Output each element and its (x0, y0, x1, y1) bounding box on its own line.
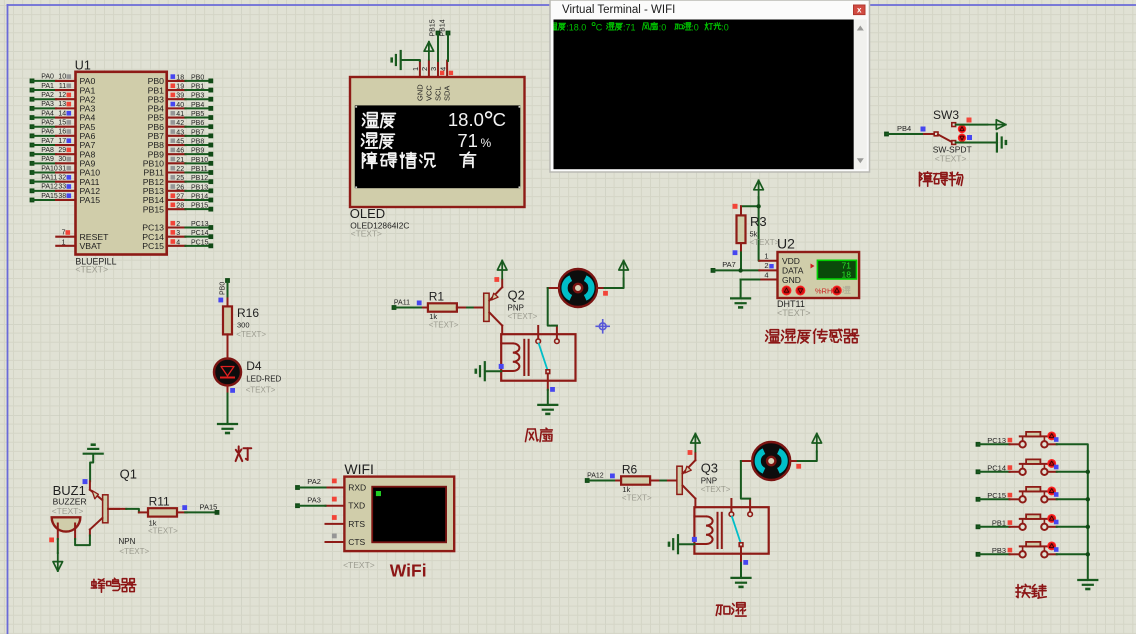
svg-text:<TEXT>: <TEXT> (622, 494, 652, 503)
push button PB1 (976, 514, 1059, 530)
svg-text:<TEXT>: <TEXT> (750, 238, 780, 247)
R11 labels (148, 494, 178, 535)
svg-text:10: 10 (58, 74, 66, 81)
svg-text:VBAT: VBAT (80, 241, 103, 251)
ground left of relay humidifier (669, 535, 697, 553)
wire PB15 to OLED SCL (430, 19, 441, 61)
svg-text:18: 18 (842, 269, 852, 279)
svg-text:PA12: PA12 (587, 473, 604, 480)
svg-text:CTS: CTS (348, 537, 365, 547)
svg-text:7: 7 (62, 230, 66, 237)
svg-text:38: 38 (58, 193, 66, 200)
svg-text:SCL: SCL (434, 86, 443, 101)
power terminal right of motor fan (619, 261, 629, 279)
svg-text:27: 27 (176, 193, 184, 200)
label humidifier (716, 603, 746, 616)
ground above Q1 (83, 445, 103, 484)
motor fan (548, 269, 605, 307)
svg-text:PB4: PB4 (191, 102, 204, 109)
push button PC13 (976, 432, 1059, 448)
svg-text:U2: U2 (777, 236, 795, 252)
svg-text:21: 21 (176, 157, 184, 164)
svg-text:C: C (493, 109, 506, 130)
wire BUZ1 to power down (49, 538, 58, 553)
svg-text::0: :0 (659, 22, 667, 32)
svg-text:PB1: PB1 (992, 518, 1006, 527)
svg-text:19: 19 (176, 84, 184, 91)
svg-text:PB14: PB14 (191, 193, 208, 200)
svg-text:13: 13 (58, 101, 66, 108)
svg-text:PC14: PC14 (191, 230, 209, 237)
power terminal right of motor humidifier (812, 434, 822, 452)
svg-text:<TEXT>: <TEXT> (777, 308, 811, 318)
wire R3 to PA7 node (740, 252, 742, 270)
svg-text:PA9: PA9 (41, 156, 54, 163)
Virtual Terminal - WIFI window (550, 0, 870, 172)
svg-text:PA7: PA7 (41, 138, 54, 145)
svg-text:R11: R11 (149, 494, 170, 508)
power terminal above Q3 (688, 434, 701, 455)
Q3 labels (701, 461, 731, 495)
ground for OLED GND pin (392, 51, 420, 69)
svg-text:VDD: VDD (782, 256, 800, 266)
svg-text:<TEXT>: <TEXT> (236, 330, 266, 339)
svg-text:PA11: PA11 (394, 300, 410, 307)
svg-text:18: 18 (176, 74, 184, 81)
OLED display U-OLED (350, 61, 525, 207)
resistor R16 (223, 298, 232, 343)
wire motor to power fan (603, 279, 624, 296)
label temperature humidity sensor (766, 329, 859, 343)
svg-text:PB3: PB3 (992, 546, 1006, 555)
BUZ1 labels (52, 483, 87, 516)
svg-text:29: 29 (58, 147, 66, 154)
R3 labels (733, 214, 780, 255)
svg-text:42: 42 (176, 120, 184, 127)
svg-text:1: 1 (764, 252, 768, 261)
ground for buttons (1078, 580, 1097, 589)
svg-text:%RH: %RH (815, 286, 833, 295)
wire D4 to ground (228, 388, 236, 424)
svg-text:RTS: RTS (348, 519, 365, 529)
svg-text:GND: GND (416, 84, 425, 101)
resistor R6 (616, 476, 660, 484)
svg-text:<TEXT>: <TEXT> (935, 154, 967, 164)
relay humidifier (694, 499, 768, 563)
svg-text:2: 2 (176, 221, 180, 228)
svg-text:PC13: PC13 (987, 436, 1006, 445)
wire Q1 base to R11 (108, 509, 139, 513)
svg-text:PC14: PC14 (987, 463, 1006, 472)
svg-text::0: :0 (691, 22, 699, 32)
svg-text:PC15: PC15 (142, 241, 164, 251)
origin marker (596, 320, 609, 333)
R16 labels (236, 306, 266, 339)
svg-text:2: 2 (420, 67, 429, 71)
svg-text:<TEXT>: <TEXT> (148, 527, 178, 536)
svg-text:<TEXT>: <TEXT> (52, 506, 84, 516)
motor humidifier (741, 442, 798, 480)
ground under U2 (731, 298, 750, 307)
resistor R11 (139, 508, 187, 516)
svg-text:PB11: PB11 (191, 166, 208, 173)
svg-text:WiFi: WiFi (390, 561, 427, 581)
svg-text:PC15: PC15 (191, 239, 209, 246)
svg-text:RXD: RXD (348, 483, 366, 493)
svg-text:PA2: PA2 (307, 477, 321, 486)
ground right of SW3 (997, 134, 1006, 152)
svg-text:1: 1 (411, 67, 420, 71)
wire PB14 to OLED SDA (440, 19, 451, 61)
U1 value labels (75, 257, 116, 275)
svg-text:PA5: PA5 (41, 120, 54, 127)
svg-text:VCC: VCC (425, 85, 434, 101)
svg-text:11: 11 (59, 83, 66, 90)
push button PB3 (976, 542, 1059, 558)
svg-text:x: x (857, 6, 862, 15)
svg-text:R1: R1 (429, 289, 445, 303)
svg-text:PA10: PA10 (41, 165, 58, 172)
wire motor to relay humidifier (741, 461, 750, 499)
svg-text:PB15: PB15 (430, 19, 437, 36)
svg-text:R6: R6 (622, 462, 638, 476)
resistor R3 (737, 206, 746, 252)
OLED screen text line3 (363, 152, 476, 168)
relay fan (501, 326, 575, 390)
wire U2 GND to ground (741, 280, 760, 298)
microcontroller U1 (75, 58, 167, 254)
svg-text:SDA: SDA (443, 86, 452, 101)
svg-text:4: 4 (438, 67, 447, 71)
svg-text:PA7: PA7 (722, 260, 736, 269)
svg-text:U1: U1 (75, 58, 91, 72)
svg-text:15: 15 (58, 120, 66, 127)
svg-text:<TEXT>: <TEXT> (246, 386, 276, 395)
svg-text:<TEXT>: <TEXT> (119, 547, 149, 556)
svg-text:16: 16 (58, 129, 66, 136)
button bus wire (1057, 444, 1090, 579)
svg-text:PB6: PB6 (191, 120, 204, 127)
svg-text:33: 33 (58, 184, 66, 191)
transistor Q2 PNP (484, 280, 503, 334)
svg-text:45: 45 (176, 139, 184, 146)
svg-text:PB8: PB8 (191, 139, 204, 146)
LED D4 (214, 344, 241, 394)
svg-text:39: 39 (176, 93, 184, 100)
wire R6 to Q3 base (660, 480, 676, 482)
svg-text:14: 14 (58, 110, 66, 117)
wire PA12 (585, 473, 616, 483)
svg-text:3: 3 (429, 67, 438, 71)
svg-text:<TEXT>: <TEXT> (351, 229, 382, 239)
wire PA7 (711, 260, 760, 273)
svg-text:22: 22 (176, 166, 184, 173)
ground left of relay fan (476, 362, 504, 380)
svg-text:Q2: Q2 (508, 288, 525, 303)
power terminal for OLED VCC (424, 42, 434, 60)
wire PA2 (295, 477, 337, 490)
svg-text:NPN: NPN (119, 537, 136, 546)
wire relay common to ground humidifier (741, 560, 748, 577)
label buzzer (91, 578, 136, 592)
svg-text::18.0: :18.0 (566, 22, 586, 32)
svg-text:300: 300 (237, 321, 250, 330)
ground under relay humidifier (732, 578, 751, 587)
svg-text:PB12: PB12 (191, 175, 208, 182)
power terminal below BUZ1 (53, 553, 63, 571)
svg-text:46: 46 (176, 148, 184, 155)
svg-text:PC13: PC13 (191, 221, 209, 228)
svg-text:43: 43 (176, 129, 184, 136)
svg-text:71: 71 (457, 130, 478, 151)
svg-text:PB15: PB15 (191, 203, 208, 210)
Q1 labels (119, 467, 150, 556)
svg-text:WIFI: WIFI (344, 461, 374, 477)
svg-text:PA2: PA2 (41, 92, 54, 99)
wire PB0 to R16 (218, 278, 230, 302)
wire PA15 (182, 502, 219, 515)
svg-text:1: 1 (62, 239, 66, 246)
svg-text:PA6: PA6 (41, 129, 54, 136)
svg-text:Virtual Terminal - WIFI: Virtual Terminal - WIFI (562, 4, 675, 16)
power terminal above Q2 (494, 261, 507, 282)
svg-text:R3: R3 (750, 214, 767, 229)
svg-text:PB5: PB5 (191, 111, 204, 118)
U1 pin wires and pin numbers (30, 74, 214, 249)
buzzer BUZ1 (52, 517, 81, 539)
svg-text::71: :71 (623, 22, 636, 32)
svg-text::0: :0 (721, 22, 729, 32)
svg-text:PB15: PB15 (143, 204, 164, 214)
svg-text:R16: R16 (237, 306, 259, 320)
push button PC15 (976, 487, 1059, 503)
R1 labels (429, 289, 459, 329)
SW3 labels (933, 145, 972, 164)
svg-text:18.0: 18.0 (448, 109, 484, 130)
svg-text:2: 2 (764, 261, 768, 270)
transistor Q3 PNP (677, 453, 696, 507)
svg-text:SW3: SW3 (933, 108, 959, 122)
svg-text:PA15: PA15 (41, 193, 58, 200)
SW3 toggle markers (958, 118, 972, 142)
svg-text:PA0: PA0 (41, 74, 54, 81)
push button PC14 (976, 459, 1059, 475)
svg-text:PB0: PB0 (191, 74, 204, 81)
svg-text:PA11: PA11 (41, 174, 57, 181)
svg-text:PA1: PA1 (41, 83, 54, 90)
resistor R1 (423, 303, 467, 311)
label fan (525, 428, 552, 442)
wire motor to relay fan (548, 288, 557, 326)
wire PA11 (392, 300, 423, 310)
label lamp (236, 446, 252, 461)
svg-text:12: 12 (58, 92, 66, 99)
RTS CTS state squares (332, 515, 337, 538)
svg-text:PA12: PA12 (41, 184, 58, 191)
svg-text:LED-RED: LED-RED (246, 375, 281, 384)
svg-text:GND: GND (782, 275, 801, 285)
module WIFI (326, 461, 455, 551)
svg-text:17: 17 (58, 138, 66, 145)
svg-text:DATA: DATA (782, 265, 804, 275)
wire PA3 (295, 496, 337, 508)
WIFI labels (343, 560, 375, 570)
svg-text:%: % (481, 136, 492, 150)
wire motor to power humidifier (796, 452, 817, 469)
svg-text:<TEXT>: <TEXT> (343, 560, 375, 570)
svg-text:31: 31 (58, 165, 66, 172)
terminal green text (550, 22, 729, 32)
svg-text:40: 40 (176, 102, 184, 109)
wire BUZ1 to Q1 emitter (75, 536, 90, 546)
svg-text:PB9: PB9 (191, 148, 204, 155)
svg-text:<TEXT>: <TEXT> (701, 485, 731, 494)
OLED screen text line1 (362, 109, 505, 130)
ground under relay fan (538, 405, 557, 414)
svg-text:PB1: PB1 (191, 84, 204, 91)
svg-text:Q1: Q1 (120, 467, 137, 482)
svg-text:PC15: PC15 (987, 491, 1006, 500)
wire R1 to Q2 base (467, 307, 483, 309)
OLED screen text line2 (361, 130, 491, 151)
svg-text:TXD: TXD (348, 501, 365, 511)
svg-text:PA8: PA8 (41, 147, 54, 154)
svg-text:32: 32 (58, 174, 66, 181)
svg-text:PB13: PB13 (191, 184, 208, 191)
switch SW3 (884, 108, 959, 144)
svg-text:BUZZER: BUZZER (53, 496, 87, 506)
wire relay common to ground fan (548, 387, 555, 404)
D4 labels (246, 359, 282, 395)
ground under D4 (218, 424, 237, 433)
svg-text:PA3: PA3 (41, 101, 54, 108)
svg-text:PB4: PB4 (897, 124, 911, 133)
svg-text:26: 26 (176, 184, 184, 191)
svg-text:4: 4 (764, 270, 768, 279)
svg-text:PB10: PB10 (191, 157, 208, 164)
svg-text:PA3: PA3 (307, 496, 321, 505)
svg-text:PA4: PA4 (41, 110, 54, 117)
svg-text:D4: D4 (246, 359, 262, 373)
svg-text:PB0: PB0 (219, 282, 226, 295)
svg-text:30: 30 (58, 156, 66, 163)
svg-text:41: 41 (176, 111, 184, 118)
svg-text:28: 28 (176, 203, 184, 210)
wire SW3 NC to ground (956, 142, 997, 144)
Q2 labels (508, 288, 538, 322)
svg-text:PA15: PA15 (80, 195, 101, 205)
svg-text:<TEXT>: <TEXT> (429, 321, 459, 330)
label obstacle (919, 172, 962, 186)
wire SW3 NO to power (956, 120, 1006, 130)
svg-text:3: 3 (176, 230, 180, 237)
svg-text:<TEXT>: <TEXT> (75, 264, 108, 274)
OLED labels (350, 206, 410, 239)
svg-text:OLED: OLED (350, 206, 385, 221)
sensor U2 DHT11 (759, 236, 859, 298)
wire power to R3 and VDD (733, 197, 761, 261)
transistor Q1 NPN (90, 481, 119, 535)
svg-text:PB7: PB7 (191, 129, 204, 136)
label WiFi (390, 561, 427, 581)
svg-text:PB3: PB3 (191, 93, 204, 100)
U2 labels (777, 299, 811, 318)
svg-text:Q3: Q3 (701, 461, 718, 476)
svg-text:PB14: PB14 (440, 19, 447, 36)
svg-text:<TEXT>: <TEXT> (508, 312, 538, 321)
label keys (1016, 584, 1046, 598)
svg-text:PA15: PA15 (200, 502, 218, 511)
svg-text:4: 4 (176, 239, 180, 246)
R6 labels (622, 462, 652, 502)
svg-text:25: 25 (176, 175, 184, 182)
power terminal above R3 (754, 180, 764, 198)
svg-text:C: C (596, 22, 603, 32)
